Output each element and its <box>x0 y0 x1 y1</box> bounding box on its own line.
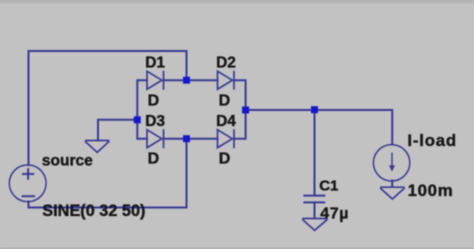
svg-text:SINE(0 32 50): SINE(0 32 50) <box>42 202 145 220</box>
voltage source minus sign <box>22 195 36 197</box>
capacitor C1 plates <box>303 196 325 203</box>
junction node D1/D2 <box>183 77 190 84</box>
svg-text:D3: D3 <box>145 113 165 130</box>
svg-text:D4: D4 <box>216 113 236 130</box>
wire D2 anode from node <box>187 79 218 81</box>
svg-text:47µ: 47µ <box>320 205 349 222</box>
wire left bridge vertical D1 anode to D3 anode <box>137 80 147 139</box>
wire source bottom stub <box>28 202 30 208</box>
diode D4 <box>218 129 235 148</box>
wire I-load bottom stub <box>391 181 393 187</box>
svg-text:I-load: I-load <box>407 131 457 150</box>
wire output horizontal to I-load <box>246 110 393 145</box>
diode D1 <box>147 71 164 90</box>
diode D2 <box>218 71 235 90</box>
ground symbol under I-load <box>380 187 404 199</box>
junction node D3/D4 <box>183 135 190 142</box>
diode D3 <box>147 129 164 148</box>
wire D4 anode from node <box>187 138 218 140</box>
ground symbol under C1 <box>302 219 327 231</box>
junction node bridge output <box>242 107 249 114</box>
junction node left bridge / ground <box>134 116 141 123</box>
current source arrow <box>389 153 395 172</box>
svg-text:D2: D2 <box>216 55 236 72</box>
wire left vertical down to voltage source <box>28 51 30 165</box>
voltage source plus sign <box>22 168 34 180</box>
voltage source "source" circle <box>9 165 46 202</box>
svg-text:D: D <box>148 93 160 110</box>
svg-text:C1: C1 <box>319 177 338 194</box>
ground symbol at bridge left node <box>85 141 109 153</box>
svg-text:D1: D1 <box>145 55 165 72</box>
wire top horizontal from source to D1/D2 node <box>29 51 187 78</box>
wire bottom horizontal to D3/D4 node <box>29 141 187 208</box>
svg-text:D: D <box>219 151 231 168</box>
svg-text:D: D <box>148 151 160 168</box>
wire D3 cathode to node <box>164 138 187 140</box>
svg-text:D: D <box>219 93 231 110</box>
current source I-load (100m) circle <box>373 145 409 181</box>
wire ground tap from left bridge node <box>98 120 134 140</box>
svg-text:100m: 100m <box>408 181 454 200</box>
junction node capacitor tap <box>311 106 318 113</box>
wire capacitor branch down from output node <box>314 110 316 195</box>
wire D1 cathode to node <box>164 79 187 81</box>
svg-text:source: source <box>42 152 93 169</box>
wire right bridge vertical D2 cathode to D4 cathode <box>234 80 246 139</box>
wire capacitor to ground stub <box>314 203 316 218</box>
